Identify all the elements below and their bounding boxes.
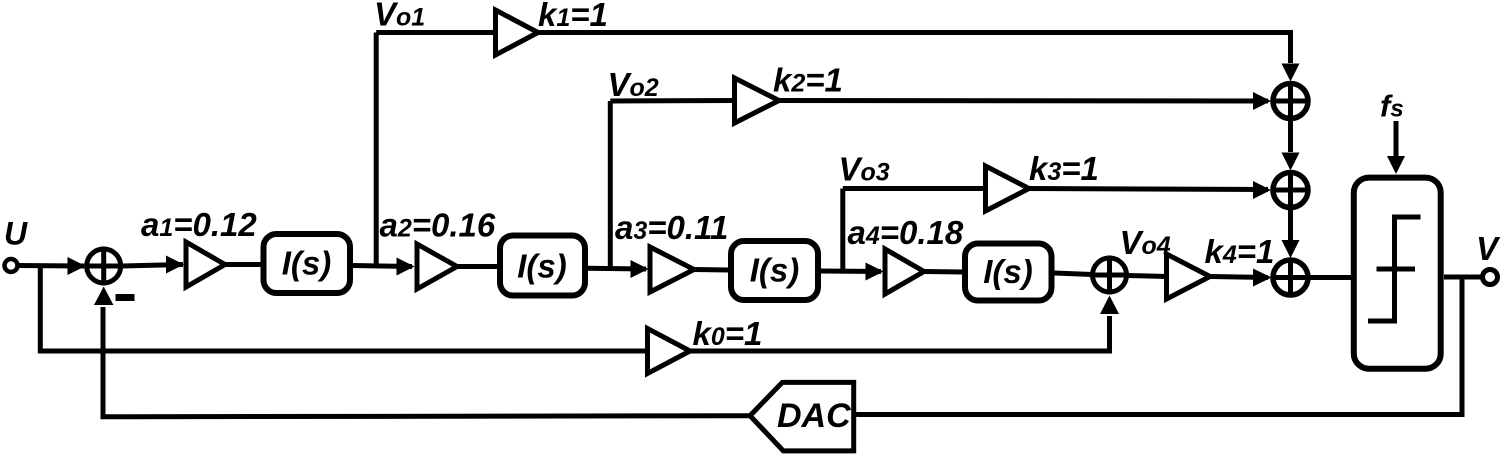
gain a3 triangle	[650, 247, 694, 292]
wire k0 to S_vo4	[690, 316, 1110, 351]
arrow down into S1 top	[1282, 64, 1300, 82]
svg-text:a4=0.18: a4=0.18	[848, 214, 964, 251]
wire DAC to input sum	[103, 307, 750, 417]
wire output feedback down	[855, 277, 1462, 415]
arrow into S1 left	[1253, 92, 1271, 110]
wire input to summing junction	[18, 263, 85, 269]
arrow up into S_vo4 bottom	[1100, 296, 1119, 315]
wire I(s)1 to a2	[352, 266, 412, 267]
DAC block	[750, 382, 854, 451]
wire S2 to S3	[1288, 210, 1293, 241]
svg-text:k1=1: k1=1	[538, 0, 608, 33]
svg-text:k2=1: k2=1	[773, 62, 843, 99]
wire Vo2 run	[610, 98, 735, 104]
arrow into a1	[166, 256, 184, 274]
arrow fs down into quantizer	[1387, 156, 1405, 174]
quantizer block	[1354, 178, 1441, 369]
summing junction S3	[1271, 258, 1310, 297]
node Vo3 takeoff	[840, 189, 845, 272]
svg-text:I(s): I(s)	[517, 248, 567, 285]
gain k0 triangle	[648, 329, 691, 374]
minus sign	[116, 294, 135, 301]
wire S1 to S2	[1288, 121, 1293, 153]
arrow into a3	[631, 260, 649, 278]
wire quantizer to output terminal	[1444, 275, 1483, 280]
wire Vo3 run	[843, 186, 986, 191]
svg-text:fs: fs	[1380, 89, 1404, 124]
arrow into S3 left	[1253, 269, 1272, 287]
wire a1 to I(s)1	[225, 262, 261, 267]
svg-text:a3=0.11: a3=0.11	[615, 209, 728, 246]
summing junction S2	[1271, 171, 1310, 210]
svg-text:Vo4: Vo4	[1120, 224, 1171, 261]
summing junction S_in	[84, 247, 123, 286]
svg-text:DAC: DAC	[777, 397, 851, 435]
gain k2 triangle	[735, 78, 780, 123]
arrow into input sum	[68, 257, 86, 275]
input terminal U	[5, 259, 18, 272]
svg-text:I(s): I(s)	[282, 245, 332, 282]
svg-text:U: U	[4, 216, 28, 252]
gain k3 triangle	[986, 166, 1030, 211]
wire k0 branch down from input	[40, 266, 648, 352]
summing junction S1	[1271, 82, 1310, 121]
node Vo1 takeoff	[374, 33, 379, 266]
svg-text:Vo3: Vo3	[839, 151, 890, 188]
svg-text:k3=1: k3=1	[1029, 150, 1099, 187]
gain a2 triangle	[417, 244, 457, 289]
svg-text:a2=0.16: a2=0.16	[380, 207, 496, 244]
wire I(s)2 to a3	[587, 266, 647, 272]
wire a2 to I(s)2	[457, 264, 499, 269]
arrow into S2 left	[1253, 181, 1271, 199]
svg-text:Vo2: Vo2	[608, 66, 659, 103]
arrow down into S3 top	[1282, 240, 1300, 258]
arrow up into S_in bottom	[94, 287, 113, 306]
integrator I(s) 4	[965, 244, 1052, 301]
gain a1 triangle	[186, 242, 225, 287]
wire Vo1 top run	[376, 30, 496, 35]
gain k1 triangle	[496, 10, 539, 55]
wire k3 to S2	[1029, 189, 1268, 190]
wire S3 to quantizer	[1308, 275, 1351, 280]
arrow down into S2 top	[1282, 153, 1300, 171]
wire S_vo4 to k4	[1127, 276, 1168, 277]
arrow into a4	[866, 263, 884, 281]
svg-text:Vo1: Vo1	[374, 0, 425, 33]
wire S_in to a1	[121, 265, 183, 267]
gain k4 triangle	[1167, 254, 1211, 299]
wire k1 to corner and down to S1	[538, 33, 1291, 64]
integrator I(s) 1	[264, 234, 351, 293]
integrator I(s) 3	[731, 241, 818, 300]
svg-text:k0=1: k0=1	[693, 315, 763, 352]
wire fs into quantizer	[1394, 121, 1399, 156]
wire I(s)4 to S_vo4	[1055, 273, 1093, 275]
wire a3 to I(s)3	[694, 267, 729, 273]
summing junction S_vo4	[1090, 256, 1129, 295]
node Vo2 takeoff	[608, 101, 613, 269]
svg-text:I(s): I(s)	[750, 252, 800, 289]
wire k2 to S1	[779, 98, 1268, 104]
gain a4 triangle	[885, 249, 924, 294]
svg-text:V: V	[1476, 230, 1501, 267]
svg-text:k4=1: k4=1	[1205, 233, 1275, 270]
wire a4 to I(s)4	[924, 269, 963, 275]
output terminal V	[1483, 270, 1498, 285]
integrator I(s) 2	[500, 236, 585, 296]
svg-text:I(s): I(s)	[983, 253, 1033, 290]
arrow into a2	[397, 258, 415, 276]
svg-text:a1=0.12: a1=0.12	[141, 206, 257, 243]
wire I(s)3 to a4	[821, 269, 881, 275]
wire k4 to S3	[1210, 277, 1268, 278]
